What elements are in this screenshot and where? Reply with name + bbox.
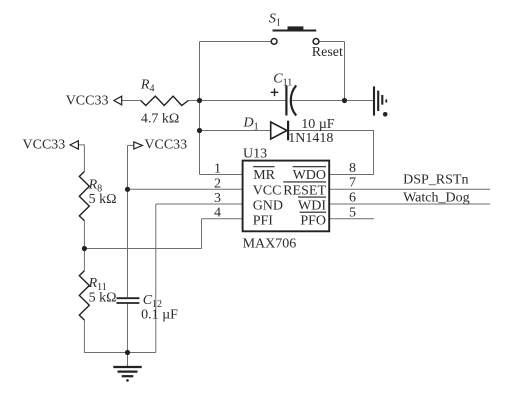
- wire: pin 6 WDI out to Watch_Dog: [329, 203, 490, 205]
- switch S1 left contact: [271, 39, 277, 45]
- wire: pin 5 PFO stub: [329, 218, 374, 220]
- wire: VCC33 right-arrow vertical down to C12 top plate: [127, 145, 129, 297]
- svg-text:WDI: WDI: [298, 199, 326, 214]
- right ground bar 2: [377, 91, 379, 111]
- bottom ground bar 3: [122, 375, 134, 377]
- junction: bottom ground node: [125, 350, 130, 355]
- wire: pin 2 VCC to VCC33 vertical: [128, 188, 243, 190]
- VCC33 port (top, for R4): [114, 96, 122, 105]
- svg-text:1: 1: [214, 161, 221, 176]
- right ground dash: [385, 99, 387, 102]
- right ground bar 1: [373, 86, 375, 115]
- junction: VCC vertical at pin 2 wire: [125, 187, 130, 192]
- svg-text:PFI: PFI: [253, 214, 274, 229]
- svg-text:3: 3: [214, 191, 221, 206]
- switch S1 actuator bar: [273, 30, 317, 32]
- wire: C11 right plate to right ground: [292, 100, 374, 102]
- svg-text:4.7 kΩ: 4.7 kΩ: [141, 111, 179, 126]
- wire: D1 cathode right, down, into pin 8 WDO: [288, 131, 373, 175]
- svg-text:10 µF: 10 µF: [301, 117, 335, 132]
- wire: GND vertical down to ground node: [155, 204, 157, 353]
- bottom ground bar 2: [118, 371, 138, 373]
- wire: pin 7 RESET out to DSP_RSTn: [329, 188, 490, 190]
- svg-text:MAX706: MAX706: [243, 237, 297, 252]
- wire: R8 bottom to R11 top: [83, 221, 85, 271]
- resistor R8: [79, 172, 89, 221]
- svg-text:WDO: WDO: [293, 168, 326, 183]
- wire: left vertical from S1 down to pin 1 MR: [199, 42, 201, 175]
- wire: S1 right contact to corner: [319, 41, 345, 43]
- capacitor C11 curved plate: [291, 85, 296, 115]
- capacitor C12 top plate: [117, 297, 140, 299]
- svg-text:4: 4: [214, 206, 221, 221]
- svg-text:8: 8: [349, 161, 356, 176]
- diode D1 triangle: [271, 122, 287, 139]
- IC U13 box: [243, 161, 330, 232]
- bottom ground dot: [126, 379, 129, 382]
- svg-text:2: 2: [214, 176, 221, 191]
- svg-text:VCC33: VCC33: [144, 138, 187, 153]
- svg-text:VCC33: VCC33: [66, 93, 109, 108]
- capacitor C11 straight plate: [285, 85, 287, 115]
- svg-text:DSP_RSTn: DSP_RSTn: [403, 172, 468, 187]
- svg-text:7: 7: [349, 175, 356, 190]
- svg-text:VCC33: VCC33: [23, 138, 66, 153]
- wire: vertical down from Reset corner to main node: [344, 42, 346, 101]
- wire: R4 to C11 left plate: [188, 100, 285, 102]
- wire: VCC33 left-arrow stub and down to R8: [78, 145, 84, 172]
- diode D1 cathode bar: [287, 121, 289, 141]
- wire: diode line from left vertical to D1 anode: [200, 130, 271, 132]
- resistor R11: [79, 271, 89, 320]
- junction: main node at C11 right: [342, 98, 347, 103]
- VCC33 port (left, for R8): [70, 141, 78, 149]
- junction: main node at left vertical: [197, 98, 202, 103]
- svg-text:VCC: VCC: [253, 183, 282, 198]
- wire: S1 left contact to left vertical: [200, 41, 272, 43]
- svg-text:U13: U13: [243, 146, 267, 161]
- svg-text:5 kΩ: 5 kΩ: [89, 290, 117, 305]
- wire: VCC33 right-arrow stub: [128, 144, 134, 146]
- svg-text:1N1418: 1N1418: [288, 131, 333, 146]
- svg-text:5 kΩ: 5 kΩ: [89, 192, 117, 207]
- wire: R11 bottom down and bottom node horizontal: [84, 320, 155, 353]
- svg-text:Watch_Dog: Watch_Dog: [403, 190, 470, 205]
- wire: C12 bottom plate down to ground node: [127, 304, 129, 353]
- svg-text:MR: MR: [253, 168, 275, 183]
- wire: pin 3 GND stub: [156, 203, 243, 205]
- svg-text:Reset: Reset: [312, 45, 343, 60]
- switch S1 right contact: [313, 39, 319, 45]
- C11 plus sign: [271, 89, 279, 97]
- wire: ground stem at bottom node: [127, 353, 129, 367]
- junction: divider tap R8/R11: [82, 246, 87, 251]
- svg-text:5: 5: [349, 205, 356, 220]
- right ground bar 3: [381, 95, 383, 105]
- wire: VCC33 arrow to R4: [122, 100, 141, 102]
- wire: pin 1 stub to U13: [200, 174, 243, 176]
- wire: divider tap horizontal to R8/R11 junction: [84, 248, 201, 250]
- bottom ground bar 1: [113, 366, 141, 368]
- resistor R4: [141, 96, 189, 105]
- junction: diode line at left vertical: [197, 128, 202, 133]
- svg-text:RESET: RESET: [283, 183, 326, 198]
- svg-text:GND: GND: [253, 199, 283, 214]
- wire: pin 4 PFI stub: [202, 218, 243, 220]
- svg-text:0.1 µF: 0.1 µF: [141, 308, 178, 323]
- capacitor C12 bottom plate: [117, 302, 140, 304]
- VCC33 port (right arrow, for VCC pin): [134, 142, 143, 149]
- svg-text:PFO: PFO: [300, 214, 326, 229]
- svg-text:6: 6: [349, 191, 356, 206]
- wire: PFI vertical down to divider tap: [201, 219, 203, 249]
- right ground dot: [383, 112, 388, 117]
- switch S1 button cap: [288, 26, 304, 30]
